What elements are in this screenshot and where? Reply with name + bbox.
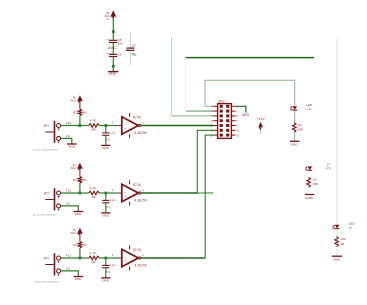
- svg-text:+: +: [106, 38, 108, 42]
- junction on ground wire: [112, 65, 115, 68]
- capacitor C2 (polarized): [106, 52, 122, 56]
- resistor pull-up: [73, 109, 87, 116]
- svg-text:C+: C+: [106, 17, 110, 21]
- capacitor to ground: [102, 131, 116, 142]
- svg-text:2: 2: [112, 120, 114, 124]
- op-amp power stubs: [129, 180, 131, 184]
- svg-text:1M: 1M: [91, 195, 96, 199]
- junction on VCC wire: [112, 30, 115, 33]
- ground below sleeve: [74, 277, 84, 282]
- svg-text:GND: GND: [75, 277, 83, 281]
- svg-text:R?: R?: [73, 111, 77, 115]
- svg-text:(c) j.t woodworks+: (c) j.t woodworks+: [35, 280, 60, 284]
- wire vertical to header row2 (nearly invisible): [185, 58, 187, 112]
- wire op-amp output: [141, 125, 214, 127]
- svg-text:1M: 1M: [91, 260, 96, 264]
- header pin row 6: [210, 129, 239, 133]
- svg-text:(c) j.t woodworks+: (c) j.t woodworks+: [33, 213, 58, 217]
- resistor pull-up: [73, 242, 87, 249]
- header pin row 1: [212, 105, 239, 109]
- junction 2: [104, 192, 107, 195]
- svg-text:IC?A: IC?A: [133, 248, 142, 252]
- header pin row 2: [212, 109, 239, 113]
- resistor series input: [89, 119, 100, 132]
- connector pin sleeve: [57, 204, 61, 208]
- svg-text:4R: 4R: [341, 242, 345, 246]
- connector pin tip: [57, 256, 61, 260]
- wire LED to resistor: [294, 111, 296, 123]
- pin supply to resistor: [79, 169, 81, 177]
- pin supply to resistor: [79, 101, 81, 109]
- wire junction2 down to cap: [105, 258, 107, 265]
- wire to junction 2: [99, 192, 107, 194]
- svg-text:GND: GND: [75, 212, 83, 216]
- capacitor C7: [126, 44, 136, 50]
- op-amp output circle: [138, 192, 140, 194]
- ground below cap: [101, 145, 110, 150]
- svg-text:FL2: FL2: [66, 121, 72, 125]
- wire junction2 down to cap: [105, 126, 107, 133]
- ground below cap: [101, 213, 110, 218]
- svg-text:L.LL: L.LL: [110, 198, 116, 202]
- wire VCC to C1: [112, 19, 114, 39]
- svg-text:5.1: 5.1: [106, 270, 110, 274]
- svg-text:1/2: 1/2: [313, 178, 317, 182]
- svg-text:2: 2: [112, 188, 114, 192]
- ground chain C: [332, 256, 342, 261]
- svg-text:IC?A: IC?A: [133, 116, 142, 120]
- junction 2: [104, 257, 107, 260]
- junction input node: [79, 192, 82, 195]
- svg-text:FL2: FL2: [66, 253, 72, 257]
- junction 2: [104, 124, 107, 127]
- svg-text:4.1E2%: 4.1E2%: [134, 131, 147, 135]
- wire cap to ground: [105, 203, 107, 213]
- wire sleeve to ground: [61, 206, 79, 211]
- svg-text:5: 5: [236, 114, 238, 118]
- header pin row 7: [210, 133, 240, 137]
- svg-text:AVC: AVC: [71, 98, 77, 102]
- op-amp power stubs: [129, 113, 131, 117]
- op-amp triangle: [122, 184, 139, 201]
- wire LED to resistor C: [336, 229, 338, 236]
- svg-text:1M: 1M: [91, 128, 96, 132]
- wire light rectangle net (top): [205, 80, 295, 106]
- wire junction2 to op-amp: [107, 257, 118, 259]
- wire junction to series resistor: [80, 192, 89, 194]
- svg-text:4.7K: 4.7K: [90, 119, 96, 123]
- svg-text:GND: GND: [102, 214, 110, 218]
- resistor pull-up: [73, 177, 87, 184]
- wire light to header row1: [205, 105, 213, 107]
- wire sleeve to ground: [61, 271, 79, 276]
- wire junction to series resistor: [80, 125, 89, 127]
- connector jack body: [44, 253, 56, 275]
- svg-text:L?: L?: [349, 226, 353, 230]
- svg-text:8: 8: [212, 119, 214, 123]
- wire cap to ground: [105, 135, 107, 145]
- svg-text:1: 1: [142, 120, 144, 124]
- resistor series input: [89, 186, 100, 199]
- wire header row7 down to opamp3 output: [205, 135, 213, 258]
- svg-text:4.1E2%: 4.1E2%: [134, 198, 147, 202]
- svg-text:4.7K: 4.7K: [90, 251, 96, 255]
- wire C2 to ground: [112, 57, 114, 72]
- svg-text:45R: 45R: [313, 182, 318, 186]
- capacitor to ground: [102, 198, 116, 209]
- svg-text:FTI: FTI: [326, 167, 331, 171]
- capacitor C1 (polarized): [106, 38, 123, 46]
- ground below sleeve: [74, 212, 84, 217]
- wire sleeve to ground: [61, 138, 72, 143]
- svg-text:JP?: JP?: [44, 192, 50, 196]
- wire tip to junction: [61, 257, 80, 259]
- svg-text:+: +: [124, 259, 126, 263]
- wire to junction 2: [99, 257, 107, 259]
- svg-text:LG: LG: [66, 202, 71, 206]
- svg-text:GND: GND: [109, 72, 117, 76]
- resistor chain C: [335, 236, 346, 246]
- svg-text:+: +: [124, 127, 126, 131]
- wire cap to ground: [105, 268, 107, 278]
- wire resistor to junction: [79, 248, 81, 258]
- connector jack body: [44, 188, 56, 210]
- svg-text:1/2: 1/2: [298, 123, 302, 127]
- svg-text:AVC: AVC: [71, 166, 77, 170]
- wire long horizontal net: [185, 57, 314, 59]
- svg-text:+12V: +12V: [257, 117, 266, 121]
- LED floating group: [305, 166, 312, 170]
- svg-text:1: 1: [142, 253, 144, 257]
- svg-text:(c) j.t woodworks+: (c) j.t woodworks+: [34, 148, 59, 152]
- wire faint tall right: [336, 39, 338, 225]
- op-amp power stubs: [129, 245, 131, 249]
- svg-text:2: 2: [112, 253, 114, 257]
- wire to header row2: [186, 110, 213, 112]
- svg-text:C6: C6: [118, 52, 122, 56]
- svg-text:L.LL: L.LL: [110, 131, 116, 135]
- svg-text:JP?: JP?: [44, 257, 50, 261]
- svg-text:FL2: FL2: [66, 188, 72, 192]
- wire resistor to ground C: [336, 247, 338, 256]
- LED chain C: [333, 222, 355, 230]
- ground chain A: [290, 141, 300, 146]
- supply arrow above pull-up: [71, 95, 83, 102]
- svg-text:JP2: JP2: [218, 99, 224, 103]
- wire C1 to C2: [112, 43, 114, 54]
- wire op-amp output: [141, 192, 198, 194]
- LED D1: [290, 103, 313, 111]
- svg-text:AVCC: AVCC: [108, 46, 117, 50]
- connector pin tip: [57, 124, 61, 128]
- svg-text:120: 120: [341, 237, 346, 241]
- wire to junction 2: [99, 125, 107, 127]
- junction input node: [79, 124, 82, 127]
- svg-text:+: +: [106, 52, 108, 56]
- resistor series input: [89, 251, 100, 264]
- svg-text:L.D: L.D: [307, 107, 311, 111]
- svg-text:1: 1: [142, 188, 144, 192]
- svg-text:GND: GND: [291, 142, 299, 146]
- wire to header row3: [172, 115, 214, 117]
- svg-text:10u: 10u: [118, 41, 123, 45]
- junction input node: [79, 257, 82, 260]
- wire junction2 to op-amp: [107, 192, 118, 194]
- wire tip to junction: [61, 125, 80, 127]
- wire resistor to junction: [79, 183, 81, 193]
- wire resistor to ground: [294, 132, 296, 141]
- svg-text:+: +: [124, 194, 126, 198]
- resistor R chain A: [292, 123, 303, 133]
- svg-text:AVC: AVC: [71, 231, 77, 235]
- header pin row 4: [212, 119, 239, 123]
- connector pin sleeve: [57, 136, 61, 140]
- svg-text:GND: GND: [102, 146, 110, 150]
- wire (faint) C7 chain: [129, 32, 131, 48]
- wire tip to junction: [61, 192, 80, 194]
- wire junction2 to op-amp: [107, 125, 118, 127]
- wire junction2 down to cap: [105, 193, 107, 200]
- svg-text:LG: LG: [66, 134, 71, 138]
- ground below sleeve: [67, 144, 77, 149]
- wire header row1 right to label AES: [236, 106, 246, 112]
- power supply symbol VCC top: [104, 10, 116, 21]
- wire faint vertical tall (x=171.5): [171, 37, 173, 116]
- op-amp triangle: [122, 117, 139, 134]
- svg-text:GND: GND: [102, 279, 110, 283]
- op-amp input stub: [118, 257, 122, 259]
- wire resistor to junction: [79, 116, 81, 126]
- svg-text:GND: GND: [68, 145, 76, 149]
- op-amp triangle: [122, 249, 139, 266]
- svg-text:1M: 1M: [83, 178, 88, 182]
- connector jack body: [44, 121, 56, 143]
- wire op-amp output: [141, 257, 205, 259]
- svg-text:1M: 1M: [83, 243, 88, 247]
- svg-text:C7: C7: [132, 44, 136, 48]
- svg-text:11: 11: [236, 129, 239, 133]
- ground floating group: [305, 195, 315, 201]
- pin supply to resistor: [79, 234, 81, 242]
- svg-text:GND: GND: [333, 258, 339, 262]
- svg-text:L.LL: L.LL: [110, 263, 116, 267]
- op-amp output circle: [138, 257, 140, 259]
- svg-text:AES: AES: [242, 113, 250, 117]
- svg-text:7: 7: [236, 119, 238, 123]
- svg-text:3: 3: [236, 109, 238, 113]
- svg-text:1M: 1M: [83, 111, 88, 115]
- +12V supply symbol: [257, 117, 266, 134]
- svg-text:JP?: JP?: [44, 124, 50, 128]
- svg-text:V.L: V.L: [132, 52, 137, 56]
- svg-text:R?: R?: [73, 178, 77, 182]
- connector pin tip: [57, 191, 61, 195]
- svg-text:IC?A: IC?A: [133, 183, 142, 187]
- ground GND top chain: [108, 72, 118, 76]
- resistor floating group: [307, 177, 318, 187]
- svg-text:5.1: 5.1: [106, 137, 110, 141]
- supply arrow above pull-up: [71, 163, 83, 170]
- supply arrow above pull-up: [71, 228, 83, 235]
- svg-text:5.1: 5.1: [106, 205, 110, 209]
- capacitor to ground: [102, 263, 116, 274]
- connector JP2 outline: [218, 104, 232, 139]
- header pin row 5: [210, 124, 238, 128]
- svg-text:AGND: AGND: [305, 196, 313, 200]
- header pin row 3: [212, 114, 239, 118]
- ground below cap: [101, 278, 110, 283]
- op-amp input stub: [118, 192, 122, 194]
- connector pin sleeve: [57, 269, 61, 273]
- svg-text:4.7K: 4.7K: [90, 186, 96, 190]
- svg-text:9: 9: [236, 124, 238, 128]
- svg-text:4.1E2%: 4.1E2%: [134, 263, 147, 267]
- svg-text:LG: LG: [66, 267, 71, 271]
- wire header row6 down to opamp2 output: [197, 130, 213, 193]
- op-amp input stub: [118, 125, 122, 127]
- wire junction to series resistor: [80, 257, 89, 259]
- svg-text:R?: R?: [73, 243, 77, 247]
- svg-text:49R: 49R: [298, 128, 303, 132]
- op-amp output circle: [138, 124, 140, 126]
- svg-text:13: 13: [236, 133, 239, 137]
